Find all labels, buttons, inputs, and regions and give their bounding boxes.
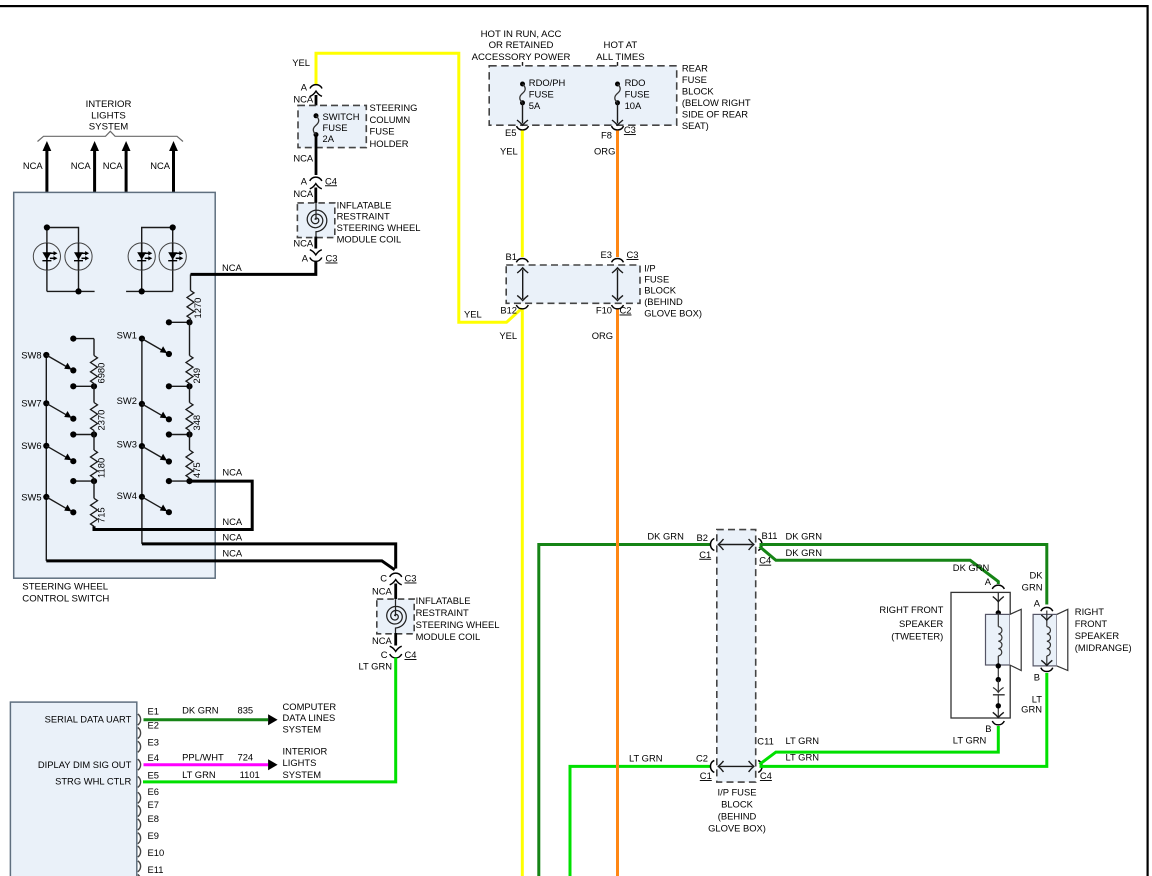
resistor 715	[91, 498, 98, 526]
node INTERIOR LIGHTS SYSTEM label	[86, 99, 132, 133]
svg-text:E9: E9	[148, 830, 159, 841]
svg-text:2370: 2370	[96, 410, 107, 431]
svg-text:NCA: NCA	[150, 160, 171, 171]
svg-text:F8: F8	[601, 129, 612, 140]
wire	[394, 584, 397, 606]
svg-text:SW3: SW3	[117, 439, 137, 450]
wire tap row2	[169, 385, 190, 387]
svg-text:SW4: SW4	[117, 490, 137, 501]
wire tap row3	[169, 434, 190, 436]
svg-text:6980: 6980	[96, 363, 107, 384]
svg-text:(MIDRANGE): (MIDRANGE)	[1075, 642, 1132, 653]
connector pin F8 C3	[612, 126, 624, 130]
winding	[1046, 611, 1048, 627]
node dot	[44, 224, 50, 230]
wire LT GRN from bottom up to C2	[570, 766, 710, 876]
svg-text:HOLDER: HOLDER	[370, 138, 409, 149]
wire tap top	[73, 338, 94, 340]
rear fuse block box	[489, 66, 677, 125]
svg-text:ALL TIMES: ALL TIMES	[596, 52, 645, 63]
svg-text:COLUMN: COLUMN	[370, 114, 411, 125]
svg-text:NCA: NCA	[293, 188, 314, 199]
node dot	[139, 288, 145, 294]
svg-text:NCA: NCA	[222, 516, 243, 527]
svg-text:BLOCK: BLOCK	[682, 86, 715, 97]
switch SW6	[21, 440, 76, 464]
svg-text:(BEHIND: (BEHIND	[718, 810, 757, 821]
switch SW3	[117, 439, 172, 465]
I/P fuse block box	[506, 265, 640, 303]
svg-text:C: C	[380, 573, 387, 584]
svg-text:STRG WHL CTLR: STRG WHL CTLR	[55, 776, 131, 787]
svg-text:I/P FUSE: I/P FUSE	[718, 786, 757, 797]
svg-text:RESTRAINT: RESTRAINT	[337, 211, 390, 222]
svg-text:C1: C1	[699, 549, 711, 560]
svg-text:C11: C11	[757, 736, 774, 747]
svg-text:E4: E4	[148, 752, 159, 763]
svg-text:PPL/WHT: PPL/WHT	[182, 751, 224, 762]
svg-text:SYSTEM: SYSTEM	[283, 769, 322, 780]
wire tap row4	[73, 480, 94, 482]
svg-text:YEL: YEL	[500, 145, 518, 156]
svg-text:1101: 1101	[240, 769, 260, 780]
svg-text:SW5: SW5	[21, 491, 41, 502]
connector A C3	[310, 250, 322, 255]
bus arrow C2-C4	[720, 765, 753, 767]
svg-text:1180: 1180	[96, 458, 107, 478]
svg-text:NCA: NCA	[23, 160, 44, 171]
svg-text:A: A	[302, 253, 309, 264]
wire NCA arrow 3	[125, 150, 128, 291]
connector A (midrange)	[1041, 607, 1053, 611]
wire chain segments	[93, 339, 95, 356]
horn	[1010, 609, 1021, 670]
switch SW7	[21, 398, 76, 422]
svg-text:YEL: YEL	[464, 309, 482, 320]
wire DK GRN C4 to tweeter A	[760, 547, 999, 585]
coil winding	[997, 613, 999, 627]
wire ORG (drawn over green crossings)	[616, 500, 619, 800]
svg-text:C4: C4	[760, 770, 772, 781]
wire ORG rear fuse to IP fuse	[616, 131, 619, 258]
fuse RDO/PH 5A	[520, 82, 525, 106]
svg-text:(TWEETER): (TWEETER)	[891, 630, 943, 641]
svg-text:ACCESSORY POWER: ACCESSORY POWER	[472, 52, 571, 63]
node HOT IN RUN label	[472, 29, 571, 63]
connector pin E5	[517, 126, 529, 130]
svg-text:DATA LINES: DATA LINES	[283, 712, 336, 723]
wire	[314, 188, 317, 207]
connector C C3 (coil2 top)	[390, 573, 402, 577]
svg-text:LT GRN: LT GRN	[786, 735, 820, 746]
svg-text:SYSTEM: SYSTEM	[89, 122, 128, 133]
svg-text:A: A	[985, 576, 992, 587]
resistor 1180	[91, 450, 98, 478]
svg-text:DK GRN: DK GRN	[647, 530, 683, 541]
wire	[142, 228, 173, 243]
svg-text:I/P: I/P	[644, 262, 655, 273]
svg-text:INFLATABLE: INFLATABLE	[416, 595, 471, 606]
svg-text:SIDE OF REAR: SIDE OF REAR	[682, 109, 748, 120]
connector A (tweeter)	[992, 585, 1004, 589]
wire common rail left	[45, 355, 47, 561]
node INTERIOR LIGHTS SYSTEM (right)	[283, 746, 328, 780]
svg-text:RESTRAINT: RESTRAINT	[416, 607, 469, 618]
wire DK GRN B11 to midrange A	[760, 545, 1047, 605]
tweeter coil block	[986, 614, 1010, 665]
wire LT GRN C11 to tweeter B	[760, 726, 999, 764]
LED D1	[33, 243, 60, 270]
wire tap row2	[73, 385, 94, 387]
node RIGHT FRONT SPEAKER (MIDRANGE) label	[1075, 606, 1132, 653]
svg-text:A: A	[301, 175, 308, 186]
wire tap row4 / NCA out	[169, 480, 190, 482]
svg-text:HOT IN RUN, ACC: HOT IN RUN, ACC	[481, 29, 562, 40]
svg-text:DK: DK	[1029, 569, 1043, 580]
wire NCA arrow 1 to interior lights	[45, 150, 48, 228]
svg-text:HOT AT: HOT AT	[604, 40, 638, 51]
bus arrow B1-B12	[522, 270, 524, 300]
svg-text:C2: C2	[620, 305, 632, 316]
connector B (midrange)	[1041, 668, 1053, 672]
svg-text:RIGHT: RIGHT	[1075, 606, 1104, 617]
svg-text:B11: B11	[762, 530, 778, 541]
svg-text:LT GRN: LT GRN	[953, 734, 987, 745]
resistor 348	[186, 403, 193, 431]
svg-text:NCA: NCA	[222, 548, 243, 559]
svg-text:E1: E1	[148, 705, 159, 716]
bus arrow B2-B11	[720, 544, 753, 546]
svg-text:RIGHT FRONT: RIGHT FRONT	[879, 604, 943, 615]
svg-text:NCA: NCA	[293, 237, 314, 248]
svg-text:RDO/PH: RDO/PH	[529, 77, 565, 88]
node COMPUTER DATA LINES SYSTEM	[283, 701, 337, 735]
switch SW5	[21, 491, 76, 515]
svg-text:GRN: GRN	[1021, 703, 1042, 714]
connector pin E3 C3	[612, 258, 624, 262]
svg-text:SWITCH: SWITCH	[323, 111, 360, 122]
speaker outer box	[951, 592, 1010, 718]
svg-text:INTERIOR: INTERIOR	[283, 746, 328, 757]
wire YEL below B12 to bottom	[521, 310, 524, 876]
svg-text:E7: E7	[148, 799, 159, 810]
connector pin B11 / C4	[758, 539, 762, 551]
svg-text:2A: 2A	[323, 133, 335, 144]
svg-text:FUSE: FUSE	[529, 89, 554, 100]
svg-text:C3: C3	[405, 573, 417, 584]
svg-text:C4: C4	[405, 649, 417, 660]
wire stub	[522, 62, 524, 84]
wire NCA arrow 4	[172, 150, 175, 228]
wire ORG below F10 to bottom	[616, 310, 619, 876]
LED D2	[65, 243, 92, 270]
svg-text:E6: E6	[148, 786, 159, 797]
svg-text:C3: C3	[624, 124, 636, 135]
wire NCA loop (chain bottoms tied)	[94, 481, 252, 529]
LED D4	[159, 243, 186, 270]
fuse holder box	[298, 105, 366, 147]
svg-text:E8: E8	[148, 813, 159, 824]
svg-text:SW8: SW8	[21, 349, 41, 360]
svg-text:DK GRN: DK GRN	[182, 704, 218, 715]
svg-text:LT GRN: LT GRN	[358, 661, 392, 672]
wire	[315, 95, 318, 116]
wire tap top	[169, 321, 190, 323]
node LT GRN label	[1021, 693, 1042, 714]
svg-text:FUSE: FUSE	[644, 273, 669, 284]
horn	[1057, 609, 1068, 670]
svg-text:(BELOW RIGHT: (BELOW RIGHT	[682, 97, 751, 108]
fuse RDO 10A	[615, 82, 620, 106]
resistor 6980	[91, 356, 98, 384]
svg-text:NCA: NCA	[222, 467, 243, 478]
svg-text:C2: C2	[696, 753, 708, 764]
svg-text:ORG: ORG	[594, 145, 615, 156]
svg-text:FRONT: FRONT	[1075, 618, 1108, 629]
svg-text:GRN: GRN	[1022, 581, 1043, 592]
svg-text:E3: E3	[148, 737, 159, 748]
node I/P FUSE BLOCK label	[644, 262, 702, 318]
svg-text:NCA: NCA	[71, 160, 92, 171]
svg-text:YEL: YEL	[292, 57, 310, 68]
connector pin B12	[516, 305, 528, 309]
svg-text:FUSE: FUSE	[625, 89, 650, 100]
svg-text:C3: C3	[326, 253, 338, 264]
svg-text:GLOVE BOX): GLOVE BOX)	[644, 308, 702, 319]
switch SW4	[117, 490, 172, 516]
svg-text:SW7: SW7	[21, 398, 41, 409]
node DK GRN label	[1022, 569, 1044, 592]
wire DK GRN 835 serial data	[144, 718, 269, 721]
inflatable restraint steering wheel module coil 1	[297, 203, 334, 238]
wire DK GRN from bottom up to B2	[539, 545, 710, 876]
svg-text:E11: E11	[148, 864, 164, 875]
svg-text:YEL: YEL	[499, 330, 517, 341]
node dot	[170, 224, 176, 230]
svg-text:249: 249	[191, 368, 202, 384]
node I/P FUSE BLOCK label	[708, 786, 766, 833]
svg-text:1270: 1270	[192, 298, 203, 319]
svg-text:B2: B2	[697, 532, 708, 543]
svg-text:NCA: NCA	[222, 531, 243, 542]
svg-text:A: A	[1034, 598, 1041, 609]
node RIGHT FRONT SPEAKER (TWEETER) label	[879, 604, 943, 641]
wire	[46, 228, 48, 292]
svg-text:B12: B12	[500, 305, 517, 316]
svg-text:SW2: SW2	[117, 395, 137, 406]
svg-text:F10: F10	[596, 305, 612, 316]
svg-text:INTERIOR: INTERIOR	[86, 99, 132, 110]
svg-text:OR RETAINED: OR RETAINED	[489, 40, 554, 51]
wire	[47, 228, 79, 243]
brace	[38, 131, 184, 141]
svg-text:715: 715	[96, 507, 107, 523]
LED D3	[128, 243, 155, 270]
svg-text:SYSTEM: SYSTEM	[283, 724, 322, 735]
wire LT GRN coil2 C4 down to E5	[143, 658, 396, 782]
svg-text:STEERING WHEEL: STEERING WHEEL	[22, 582, 108, 593]
svg-text:STEERING: STEERING	[370, 102, 418, 113]
svg-text:SPEAKER: SPEAKER	[899, 618, 944, 629]
wire bottom rail	[47, 290, 95, 292]
node HOT AT ALL TIMES label	[596, 40, 645, 63]
svg-text:B1: B1	[506, 251, 517, 262]
svg-text:B: B	[1034, 672, 1040, 683]
svg-text:NCA: NCA	[293, 152, 314, 163]
svg-text:NCA: NCA	[372, 586, 393, 597]
wire NCA arrow 2	[93, 150, 96, 291]
wire chain top	[190, 274, 192, 290]
svg-text:INFLATABLE: INFLATABLE	[337, 199, 392, 210]
svg-text:NCA: NCA	[103, 160, 124, 171]
resistor 1270	[187, 291, 194, 319]
svg-text:10A: 10A	[625, 100, 642, 111]
switch SW8	[21, 349, 76, 373]
svg-text:475: 475	[191, 462, 202, 478]
wire + arrow into coil	[997, 592, 999, 613]
svg-text:LIGHTS: LIGHTS	[283, 757, 317, 768]
connector A (switch fuse)	[310, 85, 322, 89]
wire	[172, 228, 174, 292]
svg-text:A: A	[301, 82, 308, 93]
wire NCA from coil1 to switch assembly	[191, 261, 316, 274]
wire	[141, 270, 143, 291]
pin arcs E1-E11	[138, 714, 141, 876]
wire	[78, 270, 80, 291]
svg-text:NCA: NCA	[372, 635, 393, 646]
inflatable restraint steering wheel module coil 2	[377, 599, 414, 634]
resistor 475	[186, 450, 193, 478]
svg-text:STEERING WHEEL: STEERING WHEEL	[416, 619, 500, 630]
midrange coil block	[1033, 614, 1057, 666]
crossover capacitor	[997, 680, 999, 692]
svg-text:REAR: REAR	[682, 63, 708, 74]
svg-text:STEERING WHEEL: STEERING WHEEL	[337, 222, 421, 233]
wire NCA from SW5-8 rail to coil2 C3	[46, 561, 394, 570]
svg-text:B: B	[985, 723, 991, 734]
switch SW1	[117, 330, 172, 358]
svg-text:CONTROL SWITCH: CONTROL SWITCH	[22, 594, 109, 605]
svg-text:SPEAKER: SPEAKER	[1075, 630, 1120, 641]
svg-text:DK GRN: DK GRN	[953, 562, 989, 573]
svg-text:LT GRN: LT GRN	[182, 769, 216, 780]
svg-text:E5: E5	[505, 127, 516, 138]
svg-text:DK GRN: DK GRN	[786, 530, 822, 541]
svg-text:COMPUTER: COMPUTER	[283, 701, 337, 712]
svg-text:DK GRN: DK GRN	[786, 547, 822, 558]
svg-text:C1: C1	[700, 770, 712, 781]
svg-text:NCA: NCA	[222, 262, 243, 273]
connector C C4 (coil2 bottom)	[390, 646, 402, 651]
resistor 249	[186, 356, 193, 384]
wire stub	[617, 62, 619, 84]
node REAR FUSE BLOCK label	[682, 63, 751, 131]
svg-text:LIGHTS: LIGHTS	[91, 110, 126, 121]
connector pin C2	[710, 760, 714, 772]
svg-text:C3: C3	[627, 249, 639, 260]
svg-text:DIPLAY DIM SIG OUT: DIPLAY DIM SIG OUT	[38, 759, 132, 770]
wire LT GRN C4 to midrange B	[760, 673, 1047, 766]
svg-text:MODULE COIL: MODULE COIL	[416, 631, 481, 642]
wire bottom rail	[126, 290, 173, 292]
svg-text:LT GRN: LT GRN	[629, 752, 663, 763]
svg-text:ORG: ORG	[592, 330, 613, 341]
svg-text:C: C	[381, 649, 388, 660]
svg-text:BLOCK: BLOCK	[721, 798, 754, 809]
switch SW2	[117, 395, 172, 423]
svg-text:E10: E10	[148, 847, 165, 858]
wire common rail right	[141, 339, 143, 544]
svg-text:348: 348	[191, 415, 202, 431]
wire PPL/WHT 724 dim signal	[144, 763, 269, 766]
svg-text:GLOVE BOX): GLOVE BOX)	[708, 822, 766, 833]
svg-text:BLOCK: BLOCK	[644, 285, 677, 296]
svg-text:NCA: NCA	[293, 93, 314, 104]
svg-text:FUSE: FUSE	[370, 126, 395, 137]
connector pin B1	[516, 258, 528, 262]
svg-text:SERIAL DATA UART: SERIAL DATA UART	[45, 713, 132, 724]
wire tap row3	[73, 434, 94, 436]
pin labels	[148, 705, 165, 875]
wire	[315, 135, 318, 175]
svg-text:SEAT): SEAT)	[682, 120, 709, 131]
wire NCA from SW1-4 rail to coil2 C3	[142, 544, 396, 569]
switch fuse 2A	[313, 113, 318, 137]
bus arrow E3-F10	[617, 270, 619, 300]
svg-text:E3: E3	[601, 249, 612, 260]
wire chain segments	[190, 319, 192, 323]
svg-text:5A: 5A	[529, 100, 541, 111]
svg-text:C4: C4	[325, 175, 337, 186]
svg-text:MODULE COIL: MODULE COIL	[337, 234, 402, 245]
connector pin F10 C2	[612, 305, 624, 309]
connector pin C11 / C4	[758, 760, 762, 772]
connector A C4	[310, 177, 322, 181]
svg-text:LT GRN: LT GRN	[786, 752, 820, 763]
connector B (tweeter)	[992, 721, 1004, 725]
wire YEL rear fuse to IP fuse	[521, 131, 524, 258]
svg-text:RDO: RDO	[625, 77, 646, 88]
wire YEL from fuse A up and across to rear area	[316, 53, 522, 322]
svg-text:835: 835	[238, 704, 254, 715]
I/P fuse block box (vertical)	[717, 530, 756, 783]
svg-text:724: 724	[238, 751, 254, 762]
svg-text:E5: E5	[148, 770, 159, 781]
node dot	[75, 288, 81, 294]
connector pin B2	[710, 539, 714, 551]
resistor 2370	[91, 403, 98, 431]
svg-text:FUSE: FUSE	[323, 122, 348, 133]
svg-text:FUSE: FUSE	[682, 74, 707, 85]
svg-text:SW1: SW1	[117, 330, 137, 341]
svg-text:(BEHIND: (BEHIND	[644, 296, 683, 307]
svg-text:SW6: SW6	[21, 440, 41, 451]
